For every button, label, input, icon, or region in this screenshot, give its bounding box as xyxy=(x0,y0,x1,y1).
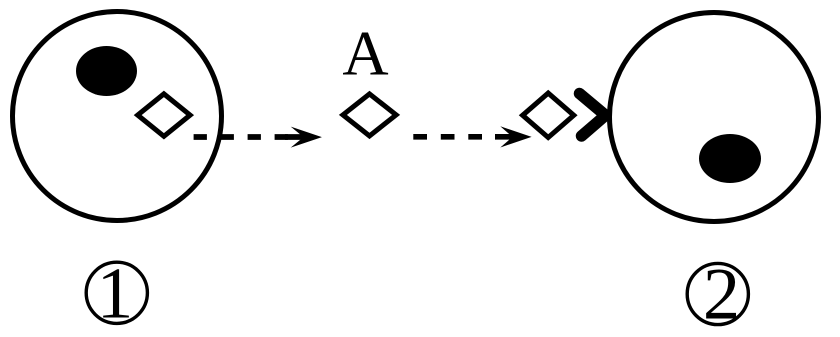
svg-text:1: 1 xyxy=(97,253,134,334)
svg-text:2: 2 xyxy=(703,254,740,336)
svg-text:A: A xyxy=(342,18,388,89)
